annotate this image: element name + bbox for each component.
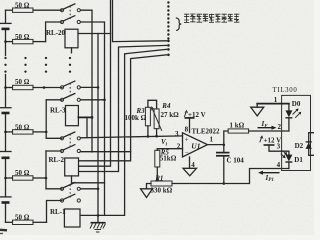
resistor R3	[125, 107, 151, 126]
op-amp power pin 8	[185, 118, 195, 133]
wire bundle V7 line2 and RL-2 lower	[79, 45, 167, 171]
relay RL-1	[50, 208, 80, 227]
node rail junction dots	[4, 40, 7, 179]
capacitor C104	[216, 153, 244, 165]
wire RL-3 output thick	[78, 116, 92, 118]
node RL-1 wire V3 crossing	[97, 214, 100, 217]
switch S3b	[60, 145, 80, 153]
optocoupler TIL300 box	[273, 87, 311, 171]
ground main	[90, 223, 106, 232]
node R3 tap	[147, 135, 150, 138]
wire pin3	[269, 145, 289, 151]
wire S2b to V4	[80, 99, 104, 101]
wire tap row5 vertical	[45, 151, 47, 189]
wire tap row5 to switch 4a	[46, 188, 62, 190]
wire relay link S1 dashed	[69, 6, 71, 21]
wire ground rail	[172, 169, 289, 184]
relay RL-3	[50, 106, 78, 126]
wire pin2 input	[157, 148, 182, 150]
power bar pin3	[264, 144, 275, 146]
wire S2a to bundle V3	[80, 86, 98, 88]
relay RL-2	[49, 156, 79, 176]
wire S1b to bundle V4	[80, 22, 104, 215]
battery B1	[0, 23, 11, 29]
label +12V op-amp	[184, 111, 205, 120]
label +12V TIL pin3	[260, 136, 281, 144]
wire relay link S4 dashed	[69, 185, 71, 199]
node S4a junction	[97, 188, 100, 191]
label IF current	[258, 120, 277, 130]
diode D2 with loop	[295, 133, 314, 156]
ground arrow pin1	[251, 104, 264, 116]
switch S2a	[60, 81, 80, 89]
relay RL-20	[46, 29, 78, 48]
wire tap row6 up to switch 4b	[47, 201, 63, 223]
resistor 1k	[228, 121, 249, 133]
wire S3b to V9	[80, 151, 130, 153]
ground arrow R1	[141, 184, 153, 198]
node tap row4	[45, 131, 48, 134]
wire R3 bottom	[147, 126, 149, 137]
wire left rail	[5, 10, 7, 222]
wire S4a to V3	[80, 188, 98, 190]
switch S1b	[60, 16, 80, 24]
wire sense line to op-amp pin3	[80, 136, 182, 138]
node output junction	[223, 144, 226, 147]
wire TIL pin1	[257, 103, 289, 105]
wire relay link S2 dashed	[69, 83, 71, 98]
node tap row5	[45, 177, 48, 180]
wire C104 down to rail	[223, 156, 225, 184]
resistor 50ohm row4	[6, 123, 47, 134]
dots column channel bus	[167, 1, 170, 56]
wire S1a to bundle V2	[80, 10, 92, 152]
resistor 50ohm row3	[6, 78, 63, 90]
switch S3a	[60, 132, 80, 140]
photodiode D1	[281, 150, 304, 168]
wire tap row4 to switch 2b	[46, 99, 62, 101]
wire bundle V6 to dots line1	[113, 0, 167, 42]
resistor R4 adjustable	[151, 102, 179, 131]
resistor 50ohm row1	[6, 2, 63, 13]
wire tap row5 to switch 3b	[46, 150, 62, 152]
resistor R5	[155, 148, 177, 167]
wire RL-20 to bundle	[78, 33, 111, 35]
wire R3 top bridge to R4 top	[148, 100, 157, 109]
wire tap row2 up to switch 1b	[46, 22, 62, 42]
resistor 50ohm row2	[6, 33, 46, 44]
resistor R1	[151, 174, 173, 194]
battery B3	[0, 152, 11, 158]
wire relay link S3 dashed	[69, 134, 71, 149]
switch S2b	[60, 94, 80, 102]
battery B4	[0, 197, 11, 203]
switch S4a	[60, 183, 80, 191]
wire R5 bottom	[156, 167, 158, 181]
label channel-select drive circuit (CJK)	[184, 14, 239, 23]
wire RL-20 bottom stub	[71, 48, 73, 53]
op-amp ground pin 4	[183, 157, 197, 176]
wire op-amp output	[208, 144, 224, 146]
switch S1a	[60, 4, 80, 12]
switch S4b	[60, 194, 80, 202]
wire tap row4 vertical	[45, 100, 47, 139]
node RL-3 wire end	[91, 116, 94, 119]
scan artifact bottom-left	[0, 230, 7, 234]
node S2b junction	[103, 99, 106, 102]
node S2a junction	[97, 86, 100, 89]
node R4 tap	[155, 135, 158, 138]
wire R4 bottom	[156, 129, 158, 137]
label IP1 current	[258, 171, 280, 184]
ellipsis dots left columns	[4, 57, 71, 73]
node C104 rail junction	[223, 182, 226, 185]
op-amp U1 TLE2022	[183, 127, 221, 157]
wire bundle V5	[79, 0, 111, 166]
LED D0	[285, 100, 301, 131]
wire bundle V8 line3 and RL-1 wire	[81, 49, 167, 215]
battery B2	[0, 108, 11, 113]
wire R5 top	[156, 149, 158, 151]
resistor 50ohm row6	[6, 214, 47, 225]
wire V1 short vertical	[87, 117, 92, 137]
wire 1k to TIL pin2	[249, 130, 289, 132]
wire output up to 1k	[224, 131, 228, 153]
node tap row3	[43, 86, 46, 89]
wire tap row4 to switch 3a	[46, 137, 62, 139]
wire RL-2 bottom return	[72, 176, 105, 183]
wire bundle V9 line4	[79, 55, 167, 161]
brace	[176, 18, 181, 31]
resistor 50ohm row5	[6, 169, 47, 180]
